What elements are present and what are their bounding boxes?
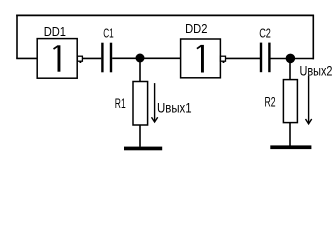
capacitor C2 <box>261 43 269 73</box>
wire: DD1 output to C1 <box>82 57 101 59</box>
arrow Uvyh1 (output voltage arrow) <box>152 83 158 122</box>
wire: C2 to node B <box>271 58 291 60</box>
wire: node B down to R2 <box>289 59 291 81</box>
wire: feedback right vertical <box>312 15 314 60</box>
capacitor C1 <box>102 43 111 73</box>
inverter DD1 body <box>37 39 77 79</box>
DD2 output pin marker (square) <box>221 56 226 63</box>
DD1 function value "1" <box>54 45 61 71</box>
wire: R2 to ground <box>289 123 291 146</box>
wire: feedback into DD1 input <box>16 57 37 59</box>
ground bar under R1 <box>124 147 162 151</box>
DD2 function value "1" <box>197 45 204 73</box>
arrow Uvyh2 (output voltage arrow) <box>306 76 312 124</box>
svg-text:C2: C2 <box>259 26 271 41</box>
wire: feedback left vertical <box>16 15 18 59</box>
svg-text:C1: C1 <box>103 26 114 41</box>
wire: node B to feedback right vertical <box>290 58 314 60</box>
svg-text:Uвых1: Uвых1 <box>157 100 192 116</box>
resistor R1 <box>133 82 148 126</box>
wire: DD2 output to C2 <box>226 57 261 59</box>
wire: node A to DD2 input <box>140 57 181 59</box>
svg-text:DD2: DD2 <box>185 21 207 36</box>
wire: R1 to ground <box>139 125 141 147</box>
wire: feedback top horizontal <box>16 14 314 16</box>
junction node A <box>136 54 145 63</box>
wire: C1 to node A <box>112 57 140 59</box>
junction node B <box>286 54 296 64</box>
svg-text:Uвых2: Uвых2 <box>300 63 333 78</box>
DD1 output pin marker (square) <box>77 56 82 63</box>
inverter DD2 body <box>181 39 221 78</box>
resistor R2 <box>283 80 297 123</box>
svg-text:R2: R2 <box>265 94 276 109</box>
wire: node A down to R1 <box>139 58 141 82</box>
svg-text:DD1: DD1 <box>44 24 66 39</box>
svg-text:R1: R1 <box>115 96 126 112</box>
ground bar under R2 <box>270 145 311 149</box>
